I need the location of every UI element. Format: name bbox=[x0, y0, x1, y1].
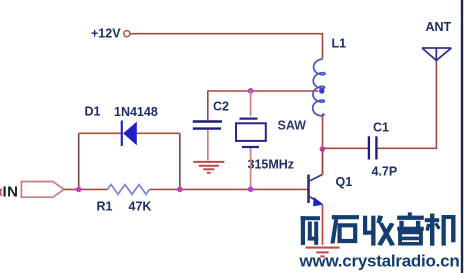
diode D1 bbox=[121, 121, 123, 147]
svg-text:ANT: ANT bbox=[426, 20, 452, 34]
border right bbox=[461, 0, 463, 273]
wire C2 to ground bbox=[207, 130, 209, 161]
wire SAW bottom feed bbox=[250, 148, 252, 189]
svg-text:L1: L1 bbox=[332, 37, 347, 51]
wire bottom rail left bbox=[64, 188, 107, 190]
watermark 收 bbox=[363, 215, 395, 246]
wire bottom rail right bbox=[150, 188, 309, 190]
connector IN port bbox=[21, 182, 64, 198]
node coil tap bbox=[319, 88, 324, 93]
transistor Q1 bbox=[307, 175, 310, 204]
capacitor C2 bbox=[193, 120, 222, 122]
svg-text:SAW: SAW bbox=[278, 119, 307, 133]
wire collector rail to C1 bbox=[323, 147, 369, 149]
wire SAW top feed bbox=[250, 91, 252, 116]
svg-text:C1: C1 bbox=[373, 121, 389, 135]
ground under Q1 bbox=[306, 248, 340, 257]
node IN junction bbox=[76, 187, 82, 193]
node SAW top junction bbox=[248, 88, 254, 94]
svg-text:+12V: +12V bbox=[91, 27, 121, 41]
svg-text:315MHz: 315MHz bbox=[248, 158, 295, 172]
wire loop right vertical bbox=[179, 133, 181, 189]
node R1 right junction bbox=[177, 187, 183, 193]
SAW resonator bbox=[240, 117, 258, 119]
wire L1 bottom to collector bbox=[322, 114, 324, 175]
watermark 机 bbox=[425, 214, 456, 246]
watermark 音 bbox=[397, 212, 424, 245]
resistor R1 bbox=[108, 185, 150, 195]
wire loop left vertical bbox=[78, 133, 80, 189]
svg-text:IN: IN bbox=[3, 184, 19, 201]
svg-text:Q1: Q1 bbox=[336, 175, 353, 189]
ground under C2 bbox=[193, 162, 224, 173]
wire collector top bbox=[322, 149, 324, 175]
ground under Q1 (halo) bbox=[306, 248, 340, 257]
inductor L1 bbox=[313, 59, 325, 116]
wire emitter to ground (white halo) bbox=[320, 205, 325, 246]
capacitor C1 bbox=[368, 136, 370, 159]
wire emitter down bbox=[322, 205, 324, 246]
svg-text:47K: 47K bbox=[129, 200, 152, 214]
wire top rail bbox=[130, 34, 322, 59]
edge fragment bbox=[0, 189, 1, 196]
wire diode branch bbox=[79, 132, 122, 134]
node SAW bottom junction bbox=[248, 187, 254, 193]
svg-text:D1: D1 bbox=[85, 105, 101, 119]
node collector junction bbox=[320, 146, 326, 152]
watermark 石 bbox=[330, 215, 359, 243]
antenna ANT bbox=[422, 48, 451, 62]
svg-text:C2: C2 bbox=[213, 100, 229, 114]
svg-text:4.7P: 4.7P bbox=[372, 165, 398, 179]
+12V terminal circle bbox=[124, 31, 130, 37]
svg-text:1N4148: 1N4148 bbox=[114, 105, 158, 119]
svg-text:R1: R1 bbox=[97, 200, 113, 214]
wire mid rail to coil tap bbox=[208, 91, 319, 120]
watermark 矿 bbox=[301, 216, 323, 245]
wire C1 to antenna bbox=[378, 61, 437, 148]
